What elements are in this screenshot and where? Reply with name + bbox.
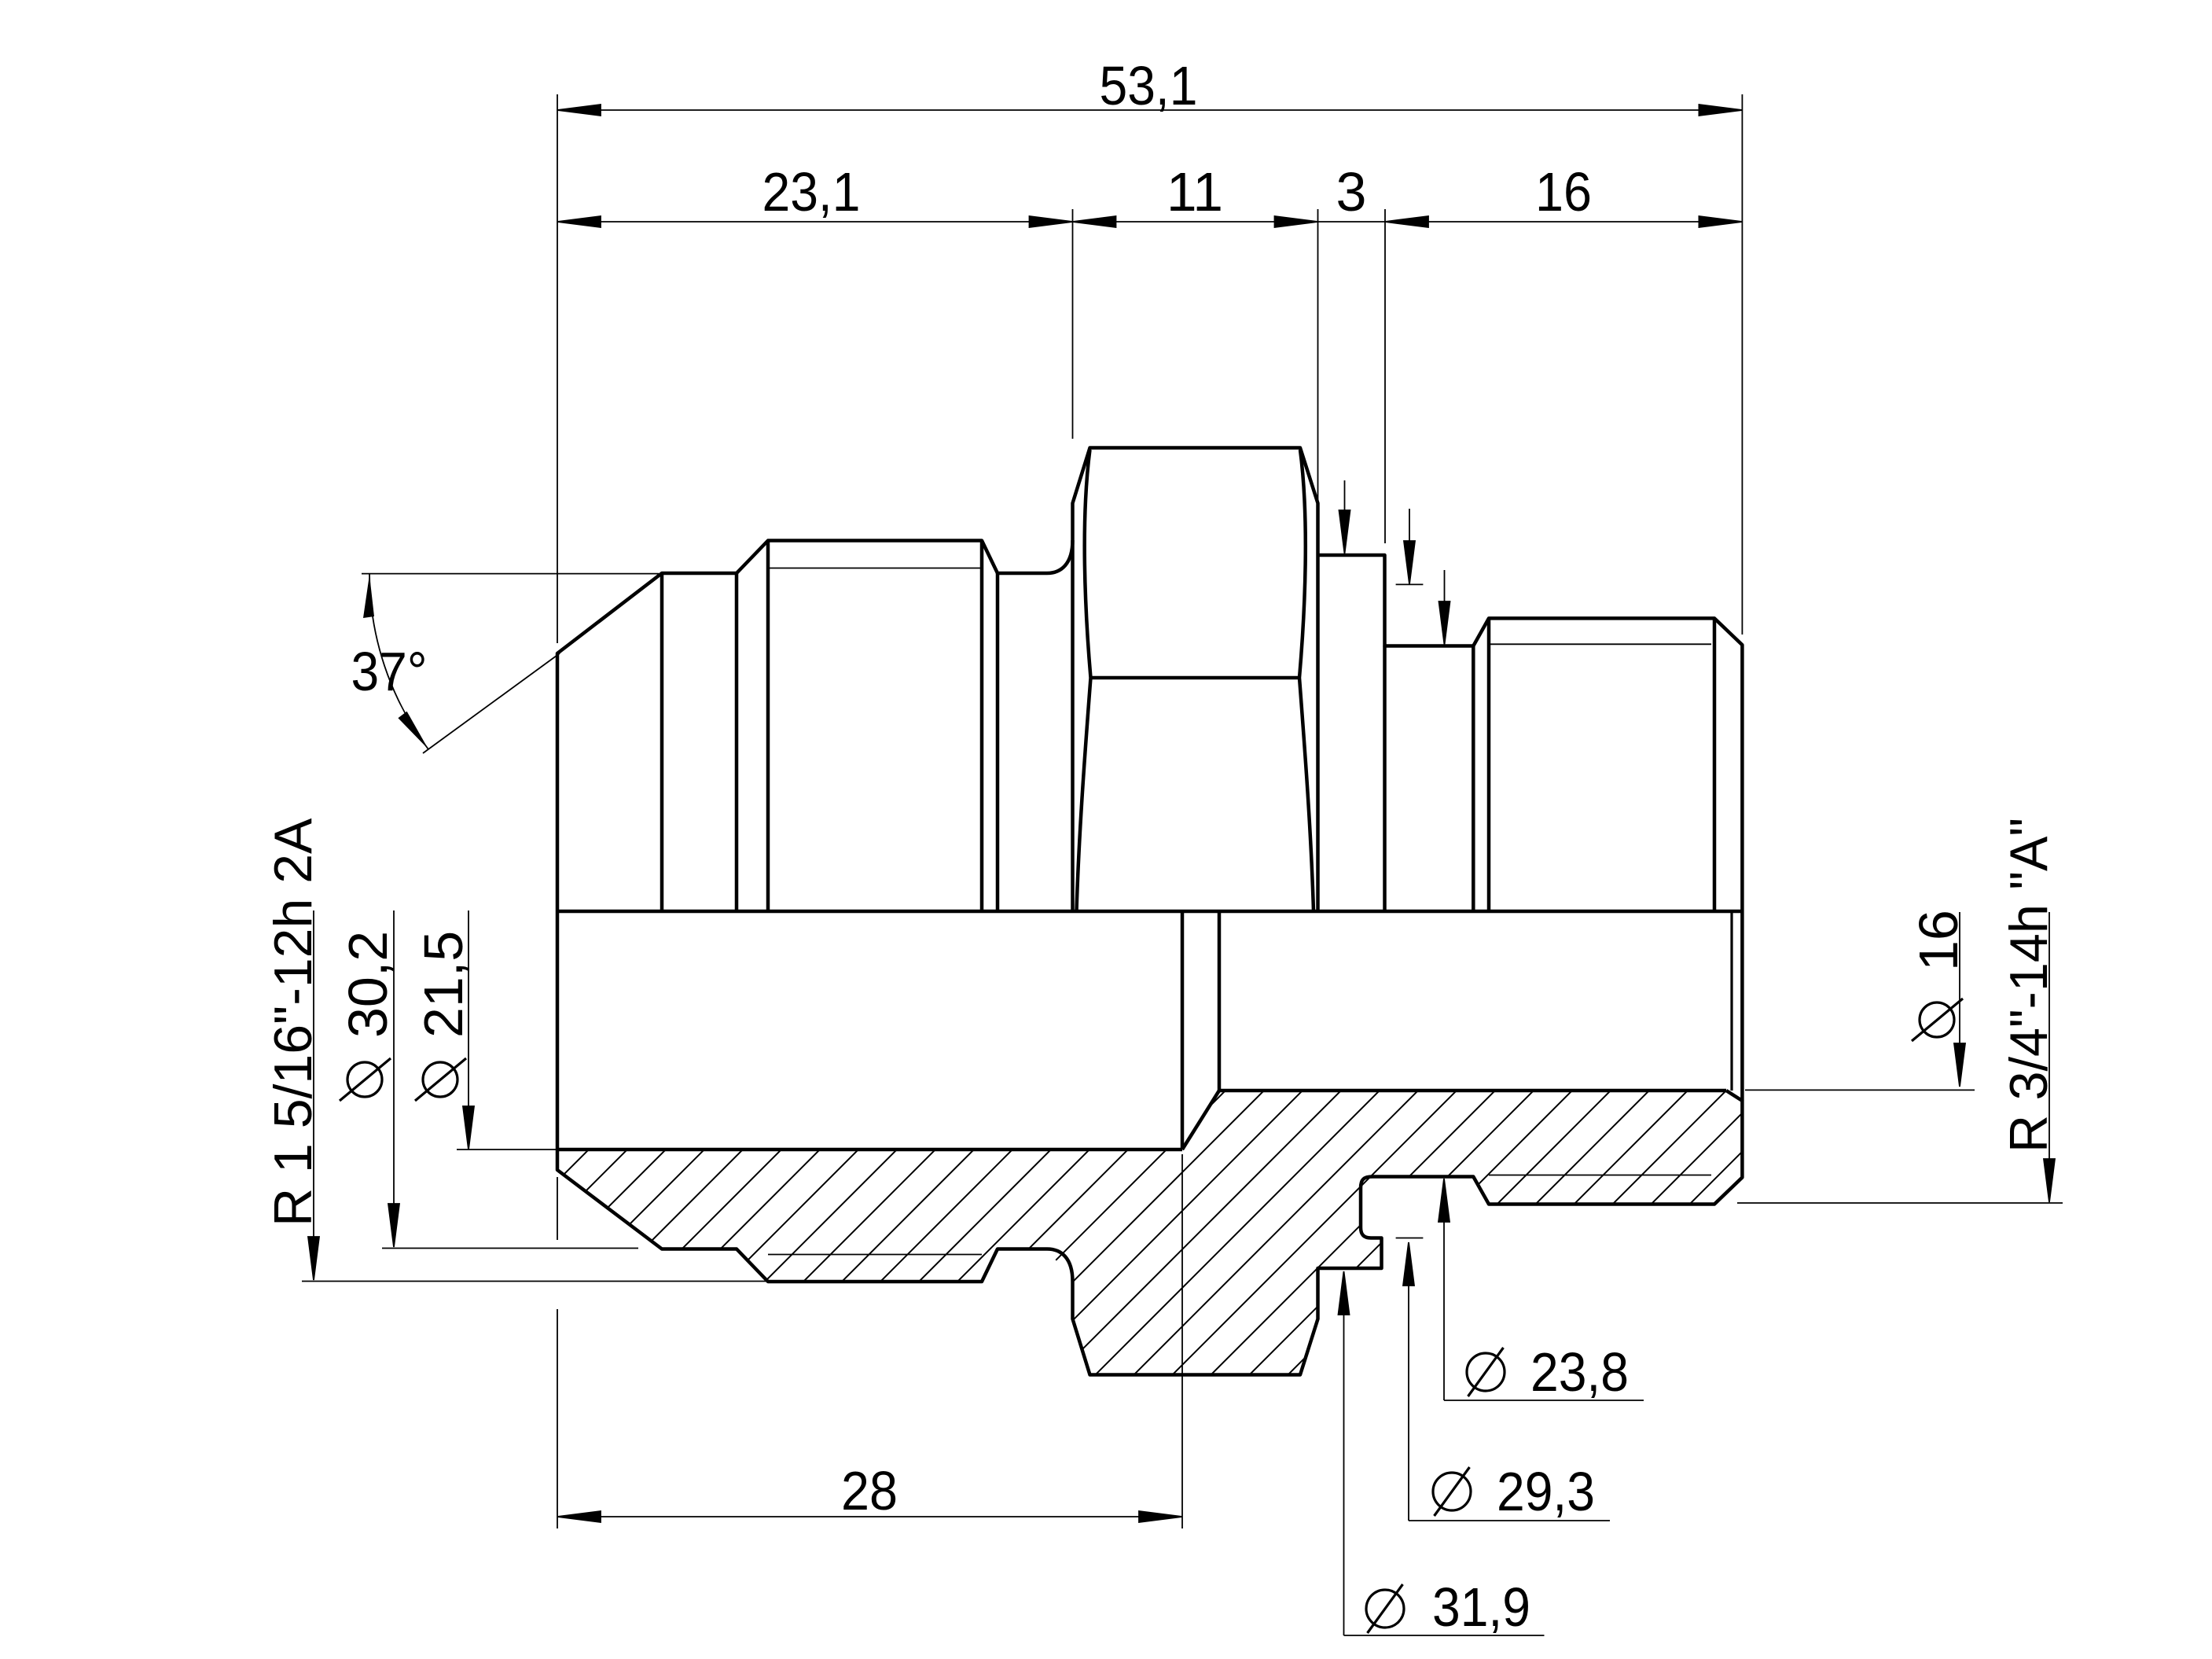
- extension line for dim 28 left: [557, 1177, 558, 1528]
- extension line at left end x=709: [557, 94, 558, 643]
- dimension row 23,1 / 11 / 3 / 16: [557, 216, 1742, 227]
- bore step edge right: [1218, 911, 1222, 1091]
- hatch lines generated: [281, 1085, 576, 1380]
- svg-text:21,5: 21,5: [413, 931, 474, 1038]
- label R 1 5/16"-12h 2A (left thread): [302, 910, 766, 1282]
- hatching (section cross-hatch): [281, 1085, 2001, 1380]
- upper arrows to collar/groove/runout diameters: [1339, 480, 1450, 645]
- bore step edge left: [1181, 911, 1185, 1150]
- svg-text:16: 16: [1535, 161, 1592, 223]
- R3/4 thread root line upper: [1489, 643, 1711, 645]
- dimension 28: [557, 1511, 1182, 1522]
- hex corner edge left: [1077, 450, 1091, 911]
- label diameter 31,9: [1339, 1271, 1545, 1635]
- thread root lines: [768, 568, 1711, 1255]
- label R 3/4"-14h "A" (right thread): [1737, 912, 2063, 1203]
- label diameter 30,2: [382, 910, 638, 1249]
- section outline lower half (mirrored profile with thread undercut): [557, 911, 1742, 1375]
- collar phi31.9, runout phi23.8, R3/4 thread crest, end chamfer, right end face upper: [1318, 555, 1743, 911]
- svg-text:11: 11: [1167, 161, 1223, 223]
- svg-text:53,1: 53,1: [1100, 55, 1198, 116]
- edge: collar right face: [1383, 646, 1387, 912]
- edge: thread crest end: [980, 541, 984, 912]
- sectioned outer profile: [557, 911, 1742, 1375]
- svg-text:23,1: 23,1: [762, 161, 861, 223]
- edge: chamfer/thread crest start: [766, 541, 770, 912]
- edge: cone/cylinder junction: [660, 573, 664, 911]
- extension line for dim 28 right: [1181, 1154, 1183, 1528]
- extension line at hex right x=1676.5: [1317, 209, 1319, 502]
- label diameter 29,3: [1403, 1242, 1610, 1521]
- svg-text:31,9: 31,9: [1432, 1576, 1530, 1638]
- JIC thread root line upper: [768, 568, 982, 569]
- view split line at centerline: [557, 910, 1742, 914]
- bore wall phi16: [1219, 1089, 1726, 1093]
- extension line at hex left x=1364.5: [1072, 209, 1074, 439]
- end face inner edge: [1730, 911, 1732, 1091]
- edge: runout/thread chamfer start: [1472, 646, 1475, 912]
- hex corner edge right: [1299, 450, 1314, 911]
- svg-text:28: 28: [841, 1460, 898, 1521]
- label diameter 16 (right bore): [1745, 912, 1975, 1090]
- nose end face, 37 deg flare cone, phi30.2 cylinder, JIC thread crest with chamfers, relief neck, fillet to hex: [557, 540, 1073, 911]
- extension line at right end x=2216: [1741, 94, 1743, 635]
- dimension extension lines: [557, 94, 1742, 1528]
- part outline upper half (external view): [557, 448, 1742, 912]
- hex silhouette upper half: [1073, 448, 1318, 912]
- bore transition cone: [1182, 1091, 1219, 1150]
- 37 degree angle dimension: [362, 573, 659, 753]
- svg-text:16: 16: [1908, 910, 1969, 971]
- svg-text:23,8: 23,8: [1530, 1341, 1629, 1403]
- R3/4 thread root line lower: [1489, 1175, 1711, 1176]
- groove diameter reference bars (29,3 level): [1396, 584, 1424, 1238]
- svg-text:37°: 37°: [351, 641, 428, 702]
- edge: right thread end chamfer: [1713, 618, 1717, 911]
- svg-text:R 1 5/16"-12h 2A: R 1 5/16"-12h 2A: [263, 818, 323, 1227]
- dimension 53,1 overall length: [557, 105, 1742, 116]
- edge: chamfer/right thread crest start: [1487, 618, 1491, 911]
- svg-text:30,2: 30,2: [337, 931, 399, 1038]
- svg-text:29,3: 29,3: [1497, 1461, 1595, 1522]
- label diameter 21,5: [457, 910, 557, 1150]
- hex face tangent line: [1090, 676, 1300, 680]
- edge: chamfer/relief junction: [996, 573, 1000, 911]
- bore wall phi21.5: [557, 1148, 1182, 1152]
- extension line at collar right x=1762: [1384, 209, 1386, 543]
- edge: cylinder/chamfer junction: [735, 573, 739, 911]
- svg-text:R 3/4"-14h "A": R 3/4"-14h "A": [1999, 818, 2059, 1153]
- JIC thread root line lower: [768, 1254, 982, 1256]
- svg-text:3: 3: [1336, 161, 1367, 223]
- label diameter 23,8: [1439, 1179, 1644, 1400]
- end face through bore band: [1740, 911, 1744, 1101]
